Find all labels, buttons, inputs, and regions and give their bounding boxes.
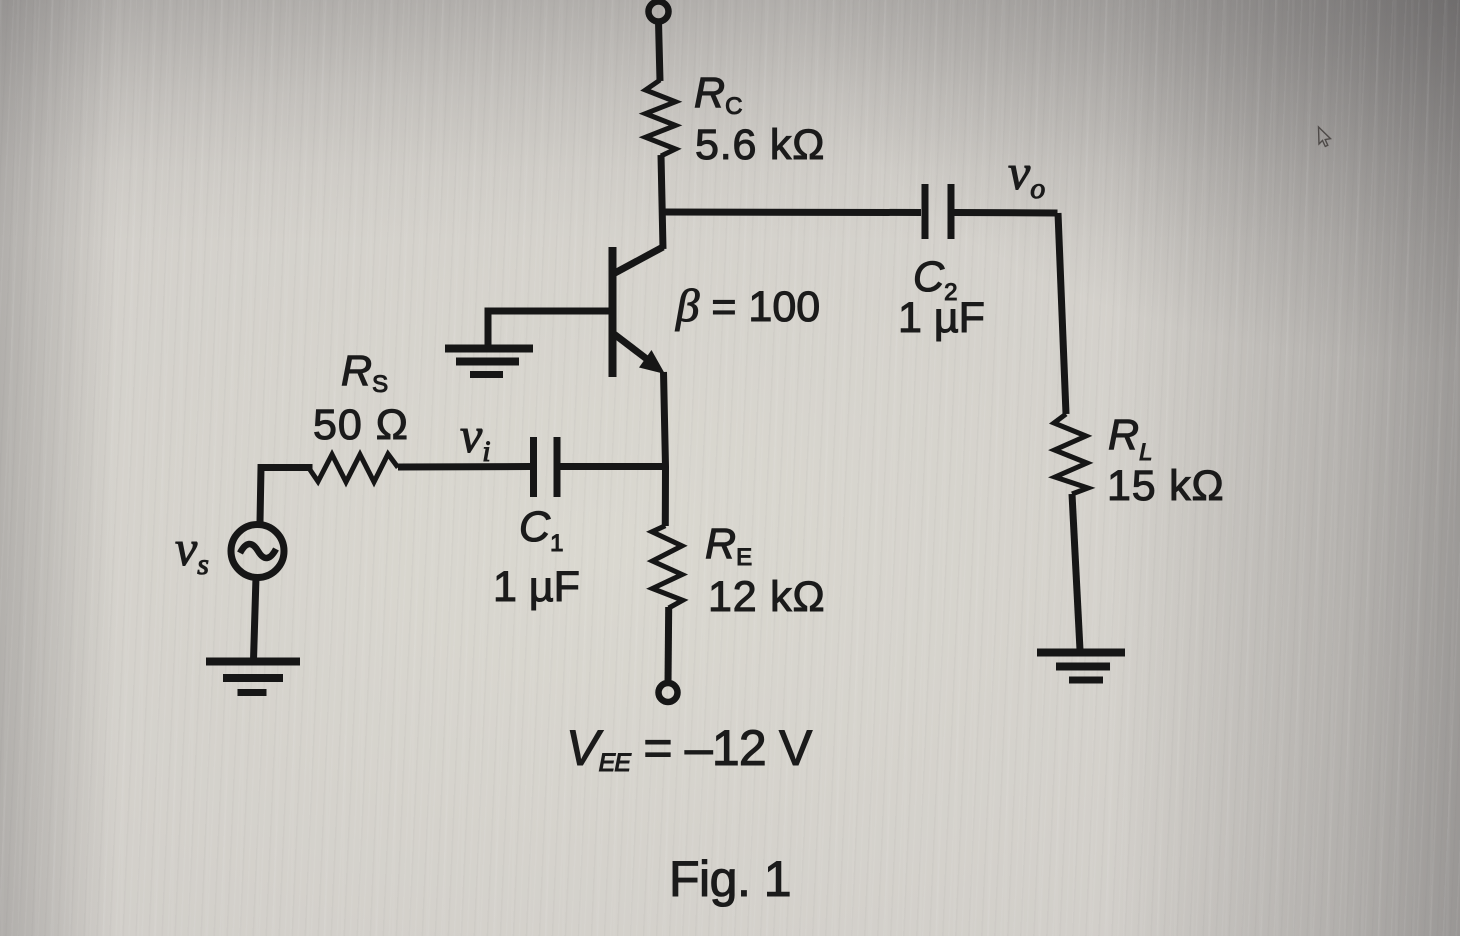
svg-text:β = 100: β = 100 <box>675 280 820 332</box>
wire base to ground <box>488 311 610 348</box>
svg-text:15 kΩ: 15 kΩ <box>1107 462 1224 510</box>
ground (base) <box>445 349 533 375</box>
svg-text:12 kΩ: 12 kΩ <box>708 573 825 621</box>
capacitor C1 <box>534 437 558 497</box>
wire top terminal to RC <box>659 21 661 81</box>
resistor RL <box>1054 414 1088 494</box>
label RC value <box>175 69 1224 907</box>
svg-text:1 µF: 1 µF <box>898 294 985 342</box>
svg-text:RE: RE <box>705 520 752 571</box>
transistor Q1 base bar <box>609 247 617 377</box>
capacitor C2 <box>925 184 951 239</box>
wire vs to ground <box>254 577 257 660</box>
wire vo node down to RL <box>1058 213 1066 414</box>
wire collector node to C2 <box>662 209 922 217</box>
mouse cursor <box>1319 127 1331 147</box>
node VCC terminal (open circle, top) <box>649 2 669 22</box>
wire vs source to Rs <box>260 468 313 523</box>
svg-text:vo: vo <box>1008 144 1045 205</box>
source vs (AC source circle) <box>231 525 284 578</box>
wire RC to collector node <box>661 155 663 249</box>
wire C1 to emitter node <box>561 463 666 470</box>
transistor Q1 emitter diagonal <box>614 334 652 363</box>
svg-text:1 µF: 1 µF <box>493 563 580 611</box>
svg-text:vs: vs <box>175 520 209 581</box>
wire Rs to C1 <box>398 463 530 471</box>
resistor RC <box>646 80 676 156</box>
transistor Q1 emitter arrowhead <box>639 350 665 374</box>
wire emitter down to C1 junction and RE <box>664 372 666 526</box>
ground (vs) <box>206 662 300 693</box>
svg-text:RC: RC <box>694 69 742 120</box>
svg-text:VEE = –12 V: VEE = –12 V <box>566 720 813 777</box>
svg-text:50 Ω: 50 Ω <box>313 401 409 449</box>
resistor RS <box>309 454 399 482</box>
wire C2 to vo node <box>955 209 1058 217</box>
wire RE to VEE terminal <box>665 607 673 684</box>
node VEE terminal (open circle) <box>659 683 678 702</box>
svg-text:RS: RS <box>341 347 388 398</box>
svg-text:Fig. 1: Fig. 1 <box>669 851 791 907</box>
sine symbol inside vs <box>240 544 276 558</box>
transistor Q1 collector diagonal <box>613 247 663 274</box>
svg-text:C1: C1 <box>519 503 563 557</box>
wire RL to ground <box>1072 494 1080 650</box>
resistor RE <box>652 526 683 608</box>
svg-text:5.6 kΩ: 5.6 kΩ <box>695 121 825 169</box>
ground (RL) <box>1037 653 1125 681</box>
svg-text:vi: vi <box>460 407 491 468</box>
svg-text:RL: RL <box>1108 411 1152 466</box>
